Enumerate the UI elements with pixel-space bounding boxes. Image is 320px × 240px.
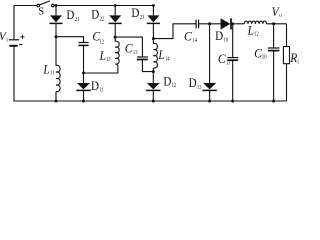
node m2 dot (114, 36, 117, 39)
wire: D13 cathode to bottom rail (209, 90, 211, 101)
switch S right terminal (52, 4, 55, 7)
svg-text:22: 22 (100, 16, 105, 22)
node dot top of C11 (231, 22, 234, 25)
wire: top rail from switch to D23 junction (54, 5, 153, 7)
svg-text:L: L (247, 23, 254, 38)
svg-text:i: i (6, 37, 8, 43)
inductor L12 (244, 21, 266, 24)
node J4 dot (top of D13) (208, 22, 211, 25)
node dot C11 bottom (231, 100, 234, 103)
svg-text:13: 13 (133, 50, 138, 56)
battery Vi bottom plate (-) (9, 45, 17, 47)
wire: D23 anode from rail (152, 6, 154, 16)
node Vo dot (272, 22, 275, 25)
node dot at top of D23 (152, 4, 155, 7)
wire: D10 cathode to L12 (231, 23, 244, 25)
wire: n2 to D12 anode (152, 72, 154, 83)
node dot C10 bottom (272, 100, 275, 103)
node n2 dot (152, 70, 155, 73)
svg-text:D: D (215, 28, 223, 43)
node dot L11 bottom (55, 100, 58, 103)
wire: battery minus down left edge and bottom rail (14, 46, 287, 101)
capacitor C11 (227, 57, 238, 59)
diode D22 (109, 15, 121, 22)
svg-text:10: 10 (224, 38, 229, 44)
wire: J4 down to D13 (209, 24, 211, 83)
svg-text:D: D (163, 73, 171, 88)
capacitor C12 (78, 42, 88, 44)
wire: D22 anode from rail (114, 6, 116, 16)
inductor L11 (56, 65, 60, 91)
diode D21 (50, 15, 62, 22)
svg-text:12: 12 (254, 32, 259, 38)
node m1 dot (55, 35, 58, 38)
wire: R1 to bottom rail (286, 64, 288, 101)
svg-text:21: 21 (75, 17, 80, 23)
inductor L14 (153, 43, 157, 68)
svg-text:L: L (43, 61, 50, 76)
battery Vi top plate (+) (9, 39, 19, 41)
wire: m3 right, up, right to C14 (153, 24, 195, 39)
svg-text:D: D (91, 7, 99, 22)
switch S lever (40, 1, 50, 5)
svg-text:o: o (279, 13, 282, 19)
wire: m1 down to L11 (55, 37, 57, 66)
svg-text:S: S (38, 7, 44, 18)
wire: m1 right and down to C12 (56, 37, 84, 42)
svg-text:14: 14 (165, 56, 170, 62)
diode D13 (203, 83, 216, 89)
svg-text:12: 12 (99, 39, 104, 45)
wire: C13 bottom to node n2 (142, 60, 153, 72)
svg-text:1: 1 (297, 60, 299, 66)
node dot D12 bottom (152, 100, 155, 103)
svg-text:23: 23 (140, 15, 145, 21)
wire: C10 bottom to rail (273, 51, 275, 101)
svg-text:D: D (66, 7, 74, 22)
wire: left edge vertical from battery plus terminal up to top-left corner (14, 6, 37, 40)
wire: L12 to Vo node and right edge (267, 23, 287, 25)
capacitor C13 (137, 56, 148, 58)
svg-text:D: D (189, 75, 197, 90)
svg-text:D: D (91, 78, 99, 93)
svg-text:10: 10 (262, 55, 267, 61)
node m3 dot (152, 37, 155, 40)
wire: C14 to D10 anode (199, 23, 221, 25)
capacitor C14 (195, 20, 197, 29)
node dot D11 bottom (82, 100, 85, 103)
svg-text:C: C (125, 40, 133, 55)
label minus of source (19, 44, 22, 46)
wire: C11 top stem (232, 24, 234, 57)
switch S left terminal (37, 4, 40, 7)
wire: D12 cathode to bottom rail (152, 90, 154, 101)
wire: right edge down to R1 (286, 24, 288, 47)
svg-text:13: 13 (106, 57, 111, 63)
svg-text:14: 14 (192, 38, 197, 44)
diode D10 (series, pointing right) (221, 18, 231, 29)
svg-text:12: 12 (172, 83, 177, 89)
wire: D23 cathode to node m3 (152, 23, 154, 43)
wire: Vo down to C10 (273, 24, 275, 48)
svg-text:D: D (131, 5, 139, 20)
wire: D21 cathode to node m1 (55, 23, 57, 36)
wire: C11 bottom to rail (232, 60, 234, 101)
svg-text:C: C (184, 29, 192, 44)
wire: D22 cathode to node m2 (114, 23, 116, 41)
svg-text:L: L (99, 48, 106, 63)
wire: n1 right to L13 bottom (84, 66, 118, 73)
diode D23 (147, 15, 159, 22)
wire: n1 to D11 anode (83, 73, 85, 83)
capacitor C10 (268, 47, 280, 49)
wire: L11 to bottom rail (55, 92, 57, 102)
node dot at top of D22 (114, 4, 117, 7)
diode D12 (147, 83, 160, 89)
resistor R1 box (283, 47, 289, 64)
wire: L14 to node n2 (152, 68, 154, 72)
svg-text:C: C (218, 51, 226, 66)
node dot at top of D21 (55, 4, 58, 7)
diode D11 (77, 83, 90, 89)
wire: D11 cathode to bottom rail (83, 90, 85, 101)
svg-text:11: 11 (50, 71, 55, 77)
svg-text:13: 13 (197, 85, 202, 91)
node dot D13 bottom (208, 100, 211, 103)
svg-text:11: 11 (226, 61, 231, 67)
svg-text:11: 11 (99, 88, 104, 94)
svg-text:L: L (158, 47, 165, 62)
node n1 dot (82, 72, 85, 75)
label plus of source (20, 35, 24, 39)
wire: D21 anode from rail (55, 6, 57, 16)
wire: C12 bottom to node n1 (83, 45, 85, 73)
inductor L13 (115, 41, 119, 66)
wire: m2 right and down to C13 (115, 37, 142, 56)
